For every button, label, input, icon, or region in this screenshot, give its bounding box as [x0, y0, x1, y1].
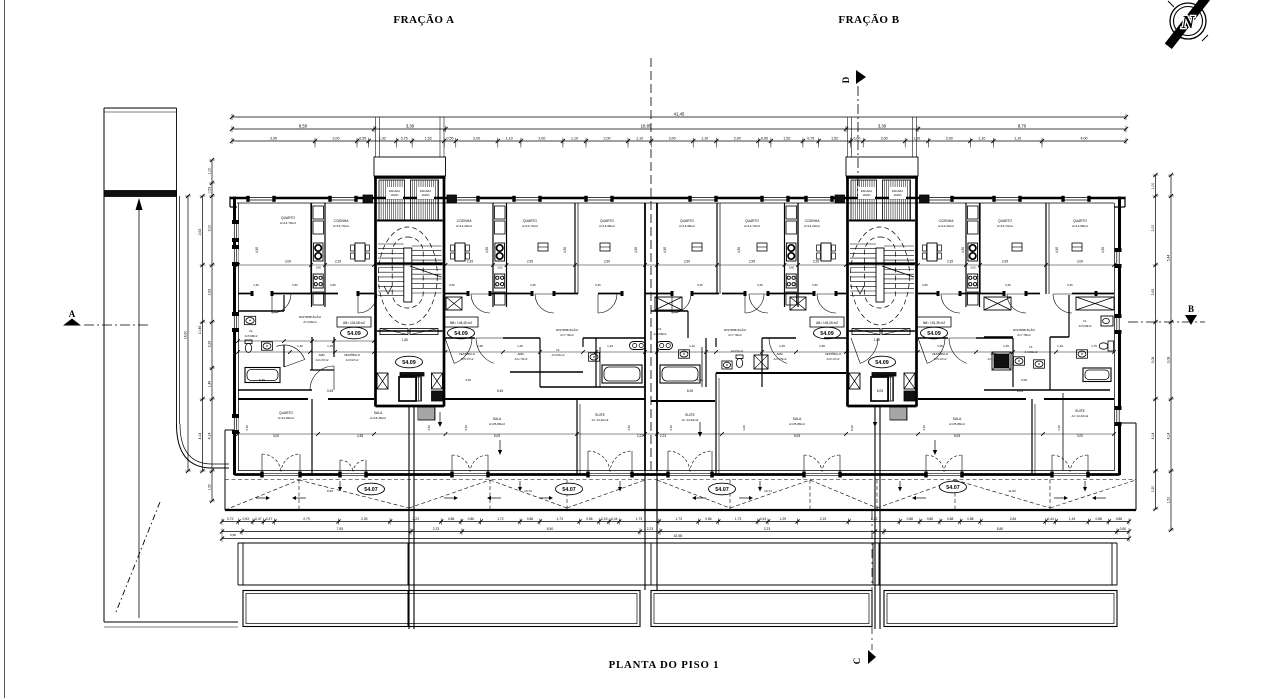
- svg-text:SUITE: SUITE: [1075, 409, 1086, 413]
- svg-text:VAZIO: VAZIO: [863, 193, 871, 197]
- garage band1: [238, 542, 1117, 544]
- svg-text:I.S.: I.S.: [556, 348, 561, 352]
- svg-text:2,25: 2,25: [335, 260, 341, 264]
- svg-text:2,95: 2,95: [527, 260, 533, 264]
- svg-text:2,23: 2,23: [412, 517, 419, 521]
- svg-text:3,00: 3,00: [1077, 260, 1083, 264]
- svg-text:10,73: 10,73: [524, 489, 532, 493]
- svg-text:2,23: 2,23: [647, 527, 654, 531]
- svg-text:2,23: 2,23: [660, 434, 666, 438]
- svg-text:0,88: 0,88: [967, 517, 974, 521]
- balcony left step: [224, 430, 226, 510]
- svg-text:NB= 151,35 m2: NB= 151,35 m2: [923, 321, 945, 325]
- svg-text:SALA: SALA: [953, 417, 962, 421]
- sheet border left edge: [4, 0, 6, 698]
- svg-text:A=14,20m2: A=14,20m2: [804, 224, 820, 228]
- svg-text:SUITE: SUITE: [685, 413, 696, 417]
- svg-text:10,73: 10,73: [764, 489, 772, 493]
- svg-text:3,95: 3,95: [270, 136, 277, 140]
- svg-text:QUARTO: QUARTO: [680, 219, 694, 223]
- balcony dashed top: [225, 479, 1136, 481]
- centre sinks: [630, 342, 646, 350]
- svg-text:0,60: 0,60: [853, 136, 860, 140]
- svg-text:A=14,70m2: A=14,70m2: [280, 221, 296, 225]
- svg-text:COZINHA: COZINHA: [805, 219, 821, 223]
- svg-text:1,52: 1,52: [831, 136, 838, 140]
- svg-text:1,25: 1,25: [327, 344, 333, 348]
- svg-text:A=3,97m2: A=3,97m2: [346, 358, 359, 362]
- svg-text:6,05: 6,05: [877, 389, 883, 393]
- door jambs on corridor wall: [251, 291, 254, 296]
- svg-text:0,44: 0,44: [611, 517, 618, 521]
- svg-text:A=13,74m2: A=13,74m2: [522, 224, 538, 228]
- svg-text:0,86: 0,86: [468, 517, 475, 521]
- svg-text:54.09: 54.09: [454, 331, 468, 337]
- balcony ovals 54.07: [358, 483, 385, 495]
- svg-text:1,50: 1,50: [208, 484, 212, 491]
- top dimension block line: [232, 128, 1126, 130]
- svg-text:8,63: 8,63: [327, 489, 333, 493]
- svg-text:0,80: 0,80: [1120, 527, 1127, 531]
- svg-text:7,83: 7,83: [337, 527, 344, 531]
- kitchen column A-left: [311, 203, 313, 307]
- svg-text:1,95: 1,95: [819, 344, 825, 348]
- svg-text:0,25: 0,25: [757, 283, 763, 287]
- svg-text:4,40: 4,40: [427, 425, 431, 431]
- svg-text:3,00: 3,00: [1077, 434, 1083, 438]
- svg-text:4,14: 4,14: [1151, 433, 1155, 440]
- svg-text:3,45: 3,45: [327, 389, 333, 393]
- svg-text:54.09: 54.09: [820, 331, 834, 337]
- svg-text:A=13,74m2: A=13,74m2: [997, 224, 1013, 228]
- svg-text:5,45: 5,45: [497, 389, 503, 393]
- svg-text:11,83: 11,83: [1008, 489, 1016, 493]
- rooms bottom wall: [238, 293, 252, 295]
- B-left suite top wall: [651, 400, 715, 402]
- svg-text:0,25: 0,25: [595, 283, 601, 287]
- svg-text:VAZIO: VAZIO: [422, 193, 430, 197]
- svg-text:2,23: 2,23: [433, 527, 440, 531]
- svg-text:4,30: 4,30: [1101, 247, 1105, 253]
- svg-text:A= 14,40m2: A= 14,40m2: [592, 418, 609, 422]
- svg-text:0,80: 0,80: [230, 533, 236, 537]
- svg-text:QUARTO: QUARTO: [998, 219, 1012, 223]
- svg-text:0,88: 0,88: [1116, 517, 1123, 521]
- svg-text:4,30: 4,30: [563, 247, 567, 253]
- svg-text:0,25: 0,25: [1067, 283, 1073, 287]
- table A-right: [455, 243, 465, 261]
- svg-text:0,60: 0,60: [922, 283, 928, 287]
- wing stubs: [363, 195, 373, 203]
- north arrow: [1165, 0, 1216, 49]
- walls A-right: [574, 203, 576, 294]
- svg-text:A=7,78m2: A=7,78m2: [560, 333, 574, 337]
- svg-text:A=25,88m2: A=25,88m2: [489, 422, 505, 426]
- svg-text:2,00: 2,00: [669, 136, 676, 140]
- svg-text:2,00: 2,00: [1151, 225, 1155, 232]
- svg-text:B: B: [1188, 304, 1194, 314]
- svg-text:A=14,20m2: A=14,20m2: [456, 224, 472, 228]
- B-left sala top wall: [716, 372, 846, 374]
- bottom wall sliding doors: [262, 472, 300, 478]
- svg-text:ESCADA: ESCADA: [389, 189, 400, 193]
- svg-text:0,60: 0,60: [292, 283, 298, 287]
- stair ramp dashed: [851, 227, 910, 325]
- garage band2 framed: [243, 591, 640, 627]
- svg-text:A=5,17m2: A=5,17m2: [934, 357, 947, 361]
- interior dim string y434: [238, 433, 1114, 435]
- svg-text:2,22: 2,22: [820, 517, 827, 521]
- svg-text:QUARTO: QUARTO: [600, 219, 614, 223]
- svg-text:1,95: 1,95: [477, 344, 483, 348]
- svg-text:VAZIO: VAZIO: [894, 193, 902, 197]
- svg-text:8,20: 8,20: [850, 425, 854, 431]
- svg-text:0,60: 0,60: [789, 266, 795, 270]
- double door vestibulo A-right: [454, 338, 472, 363]
- svg-text:ARR.: ARR.: [518, 352, 525, 356]
- site boundary left: [103, 108, 105, 622]
- svg-text:2,63: 2,63: [1151, 289, 1155, 296]
- svg-text:A=7,78m2: A=7,78m2: [728, 333, 742, 337]
- svg-text:6,05: 6,05: [1021, 378, 1027, 382]
- stair ramp dashed: [378, 227, 437, 325]
- joint below tower A: [408, 406, 410, 629]
- svg-text:4,40: 4,40: [742, 425, 746, 431]
- svg-text:1,10: 1,10: [1057, 344, 1063, 348]
- svg-text:4,40: 4,40: [669, 425, 673, 431]
- svg-text:1,73: 1,73: [735, 517, 742, 521]
- interior dim string y341 A-left: [238, 340, 374, 342]
- top wall windows: [248, 196, 274, 202]
- tower upper thin footprint: [374, 157, 446, 176]
- svg-text:0,86: 0,86: [586, 517, 593, 521]
- svg-text:QUARTO: QUARTO: [1073, 219, 1087, 223]
- svg-text:42,65: 42,65: [674, 534, 683, 538]
- svg-text:4,14: 4,14: [1167, 433, 1171, 440]
- svg-text:1,25: 1,25: [1003, 344, 1009, 348]
- svg-text:1,50: 1,50: [1167, 497, 1171, 504]
- bottom dim total line: [222, 538, 1129, 540]
- stair spine: [876, 248, 884, 302]
- svg-text:1,53: 1,53: [425, 136, 432, 140]
- svg-text:A=5,68m2: A=5,68m2: [245, 334, 258, 338]
- svg-text:A=3,51m2: A=3,51m2: [731, 349, 744, 353]
- IS centre walls A: [540, 386, 645, 388]
- building right wall: [1118, 197, 1121, 476]
- svg-text:4,30: 4,30: [634, 247, 638, 253]
- svg-text:2,25: 2,25: [361, 517, 368, 521]
- elevator shafts: [377, 373, 388, 389]
- svg-text:QUARTO: QUARTO: [523, 219, 537, 223]
- svg-text:0,86: 0,86: [527, 517, 534, 521]
- svg-text:A=13,73m2: A=13,73m2: [333, 224, 349, 228]
- svg-text:ARR.: ARR.: [777, 352, 784, 356]
- right dim chain outer: [1170, 175, 1172, 530]
- right wall WC fixtures: [1101, 316, 1113, 326]
- svg-text:2,23: 2,23: [764, 527, 771, 531]
- svg-text:2,84: 2,84: [1010, 517, 1017, 521]
- svg-text:1,10: 1,10: [297, 344, 303, 348]
- bottom dim block line: [222, 531, 1129, 533]
- left wall windows: [233, 222, 239, 240]
- right dim chain inner: [1155, 175, 1157, 509]
- stair up diagonal: [410, 266, 442, 277]
- svg-text:A=12,80m2: A=12,80m2: [278, 416, 294, 420]
- svg-text:A=14,20m2: A=14,20m2: [938, 224, 954, 228]
- svg-text:0,60: 0,60: [497, 266, 503, 270]
- svg-text:18,85: 18,85: [641, 123, 652, 128]
- svg-text:8,50: 8,50: [547, 527, 554, 531]
- svg-text:3,45: 3,45: [245, 425, 249, 431]
- svg-text:A=7,78m2: A=7,78m2: [1017, 333, 1031, 337]
- stair lower landing wall: [377, 330, 443, 332]
- svg-text:A=5,68m2: A=5,68m2: [654, 332, 667, 336]
- top-left corner pilaster: [229, 197, 231, 208]
- svg-text:4,40: 4,40: [922, 425, 926, 431]
- svg-text:0,88: 0,88: [947, 517, 954, 521]
- IS walls A-left: [238, 310, 284, 312]
- site bottom line: [104, 621, 238, 623]
- svg-text:A=5,17m2: A=5,17m2: [461, 357, 474, 361]
- vestibulo walls A-right: [445, 337, 475, 339]
- svg-text:2,79: 2,79: [303, 517, 310, 521]
- svg-text:0,63: 0,63: [242, 517, 249, 521]
- svg-text:FRAÇÃO B: FRAÇÃO B: [838, 14, 899, 26]
- tower thick walls: [846, 176, 849, 407]
- area box A-left: [337, 317, 371, 327]
- svg-text:0,60: 0,60: [761, 136, 768, 140]
- joint centre: [644, 471, 646, 590]
- svg-text:3,45: 3,45: [1057, 425, 1061, 431]
- left dim chain total: [187, 196, 189, 471]
- stair treads: [850, 243, 876, 245]
- svg-text:0,88: 0,88: [907, 517, 914, 521]
- svg-text:A=13,98m2: A=13,98m2: [599, 224, 615, 228]
- stair treads: [378, 243, 404, 245]
- tower upper thin footprint: [846, 157, 918, 176]
- svg-text:2,90: 2,90: [684, 260, 690, 264]
- oval 54.09 B-right: [921, 327, 948, 339]
- stair up diagonal: [882, 266, 914, 277]
- vestibulo walls B-right: [918, 337, 948, 339]
- svg-text:VESTÍBULO: VESTÍBULO: [344, 353, 361, 357]
- tower mid wall: [377, 220, 443, 222]
- top dimension drop ticks: [314, 141, 316, 148]
- svg-text:AB= 145,45 m2: AB= 145,45 m2: [816, 321, 838, 325]
- svg-text:1,10: 1,10: [571, 136, 578, 140]
- svg-text:4,40: 4,40: [464, 425, 468, 431]
- kitchen column B-right: [965, 203, 967, 307]
- svg-text:2,35: 2,35: [467, 260, 473, 264]
- svg-text:I.S.: I.S.: [249, 329, 254, 333]
- partitions lower band: [311, 399, 313, 474]
- svg-text:4,14: 4,14: [208, 433, 212, 440]
- building left wall: [233, 197, 236, 476]
- svg-text:A=13,74m2: A=13,74m2: [744, 224, 760, 228]
- svg-text:A=1,67m2: A=1,67m2: [316, 358, 329, 362]
- party wall centre: [644, 203, 646, 471]
- svg-text:1,46: 1,46: [208, 381, 212, 388]
- svg-text:1,25: 1,25: [517, 344, 523, 348]
- svg-text:SUITE: SUITE: [595, 413, 606, 417]
- svg-text:AB= 104,68 m2: AB= 104,68 m2: [343, 321, 365, 325]
- oval 54.09 tower B: [869, 356, 896, 368]
- svg-text:2,00: 2,00: [333, 136, 340, 140]
- table B-right: [927, 243, 937, 261]
- wall quarto/cozinha A-left: [310, 203, 312, 294]
- kitchen column B-left: [784, 203, 786, 307]
- svg-text:NB= 145,45 m2: NB= 145,45 m2: [450, 321, 472, 325]
- svg-text:4,14: 4,14: [198, 433, 202, 440]
- svg-text:8,80: 8,80: [997, 527, 1004, 531]
- svg-text:ARR.: ARR.: [319, 353, 326, 357]
- svg-text:A=1,75m2: A=1,75m2: [515, 357, 528, 361]
- svg-text:1,10: 1,10: [607, 344, 613, 348]
- svg-text:A= 14,40m2: A= 14,40m2: [682, 418, 699, 422]
- svg-text:41,45: 41,45: [674, 111, 685, 116]
- svg-text:54.07: 54.07: [715, 487, 729, 493]
- svg-text:0,47: 0,47: [255, 517, 262, 521]
- svg-text:0,60: 0,60: [970, 266, 976, 270]
- svg-text:0,75: 0,75: [401, 136, 408, 140]
- svg-text:QUARTO: QUARTO: [279, 411, 293, 415]
- svg-text:SALA: SALA: [793, 417, 802, 421]
- svg-text:1,10: 1,10: [701, 136, 708, 140]
- balcony bottom edge: [225, 509, 1136, 511]
- escada vazio hatched: [379, 180, 405, 220]
- svg-text:3,30: 3,30: [878, 123, 887, 128]
- elevator shafts: [849, 373, 860, 389]
- svg-text:1,44: 1,44: [1069, 517, 1076, 521]
- svg-text:0,25: 0,25: [1005, 283, 1011, 287]
- svg-text:2,00: 2,00: [473, 136, 480, 140]
- svg-text:0,44: 0,44: [760, 517, 767, 521]
- svg-text:1,75: 1,75: [1091, 344, 1097, 348]
- suite closet walls centre: [595, 338, 597, 387]
- svg-text:5,05: 5,05: [954, 434, 960, 438]
- svg-text:0,60: 0,60: [812, 283, 818, 287]
- left dim chain outer: [202, 196, 204, 471]
- svg-text:2,63: 2,63: [208, 289, 212, 296]
- svg-text:2,35: 2,35: [813, 260, 819, 264]
- svg-text:A=13,98m2: A=13,98m2: [1072, 224, 1088, 228]
- svg-text:1,25: 1,25: [779, 344, 785, 348]
- svg-text:1,10: 1,10: [1014, 136, 1021, 140]
- bathtub A-left: [245, 368, 280, 383]
- svg-text:0,53: 0,53: [208, 187, 212, 194]
- svg-text:54.07: 54.07: [364, 487, 378, 493]
- svg-text:0,72: 0,72: [227, 517, 234, 521]
- bottom dim detail line: [222, 521, 1129, 523]
- balcony door arcs (dashed): [262, 454, 281, 473]
- sala top wall segments: [238, 398, 308, 400]
- building bottom wall: [235, 473, 1120, 476]
- svg-text:3,08: 3,08: [1151, 357, 1155, 364]
- balcony arrows: [256, 497, 268, 499]
- svg-text:54.07: 54.07: [946, 485, 960, 491]
- svg-text:0,75: 0,75: [807, 136, 814, 140]
- oval 54.09 A-left: [341, 327, 368, 339]
- svg-text:QUARTO: QUARTO: [281, 216, 295, 220]
- escada vazio hatched: [851, 180, 877, 220]
- svg-text:1,32: 1,32: [379, 136, 386, 140]
- svg-text:1,73: 1,73: [636, 517, 643, 521]
- svg-text:54.09: 54.09: [347, 331, 361, 337]
- centre bathtubs: [602, 365, 642, 383]
- svg-text:0,88: 0,88: [1095, 517, 1102, 521]
- svg-text:ESCADA: ESCADA: [420, 189, 431, 193]
- building top wall: [230, 197, 1125, 200]
- svg-text:1,00: 1,00: [208, 168, 212, 175]
- svg-text:3,30: 3,30: [406, 123, 415, 128]
- svg-text:1,35: 1,35: [253, 283, 259, 287]
- svg-text:D: D: [841, 76, 851, 83]
- hatched closets below towers: [418, 407, 435, 420]
- oval 54.09 A-right: [448, 327, 475, 339]
- svg-text:3,00: 3,00: [208, 225, 212, 232]
- svg-text:3,08: 3,08: [1167, 357, 1171, 364]
- svg-text:1,52: 1,52: [783, 136, 790, 140]
- svg-text:0,88: 0,88: [927, 517, 934, 521]
- svg-text:2,63: 2,63: [198, 229, 202, 236]
- wing stubs: [835, 195, 845, 203]
- svg-text:5,05: 5,05: [494, 434, 500, 438]
- svg-text:5,05: 5,05: [794, 434, 800, 438]
- svg-text:C: C: [852, 658, 862, 665]
- area box A-right: [444, 317, 478, 327]
- svg-text:4,30: 4,30: [663, 247, 667, 253]
- svg-text:1,50: 1,50: [1151, 486, 1155, 493]
- svg-text:4,40: 4,40: [627, 425, 631, 431]
- svg-text:1,72: 1,72: [497, 517, 504, 521]
- toilet bidet sink A-left: [244, 316, 255, 324]
- bathtub B-right: [1083, 368, 1111, 382]
- extra suite partition B-right: [1062, 393, 1064, 470]
- svg-text:A=13,98m2: A=13,98m2: [679, 224, 695, 228]
- svg-text:VESTÍBULO: VESTÍBULO: [825, 352, 842, 356]
- svg-text:14,60: 14,60: [184, 331, 188, 340]
- svg-text:4,30: 4,30: [255, 247, 259, 253]
- top dimension total line: [232, 116, 1126, 118]
- centre toilets: [589, 353, 600, 361]
- svg-text:4,30: 4,30: [485, 247, 489, 253]
- svg-text:1,73: 1,73: [675, 517, 682, 521]
- landing thick line: [377, 262, 443, 264]
- top-right corner pilaster: [1114, 206, 1125, 208]
- joint below tower B: [874, 406, 876, 629]
- IS walls B-right: [984, 389, 1110, 391]
- svg-text:54.09: 54.09: [402, 360, 416, 366]
- svg-text:A=25,88m2: A=25,88m2: [949, 422, 965, 426]
- balcony zigzag: [225, 480, 299, 510]
- svg-text:1,73: 1,73: [556, 517, 563, 521]
- wardrobe closets X: [446, 297, 462, 310]
- svg-text:I.S.: I.S.: [1083, 319, 1088, 323]
- svg-text:A= 14,40m2: A= 14,40m2: [1072, 414, 1089, 418]
- svg-text:1,80: 1,80: [874, 338, 880, 342]
- svg-text:DISTRIBUIÇÃO: DISTRIBUIÇÃO: [1013, 327, 1036, 332]
- svg-text:2,23: 2,23: [871, 517, 878, 521]
- svg-text:A=5,68m2: A=5,68m2: [1079, 324, 1092, 328]
- stair spine: [404, 248, 412, 302]
- svg-text:VAZIO: VAZIO: [391, 193, 399, 197]
- svg-text:A=4,56m2: A=4,56m2: [303, 320, 317, 324]
- tower bottom wall: [848, 405, 917, 408]
- site diagonal boundary: [116, 502, 160, 612]
- site entry arrow: [138, 206, 140, 618]
- oval 54.09 tower A: [396, 356, 423, 368]
- area box B-left: [810, 317, 844, 327]
